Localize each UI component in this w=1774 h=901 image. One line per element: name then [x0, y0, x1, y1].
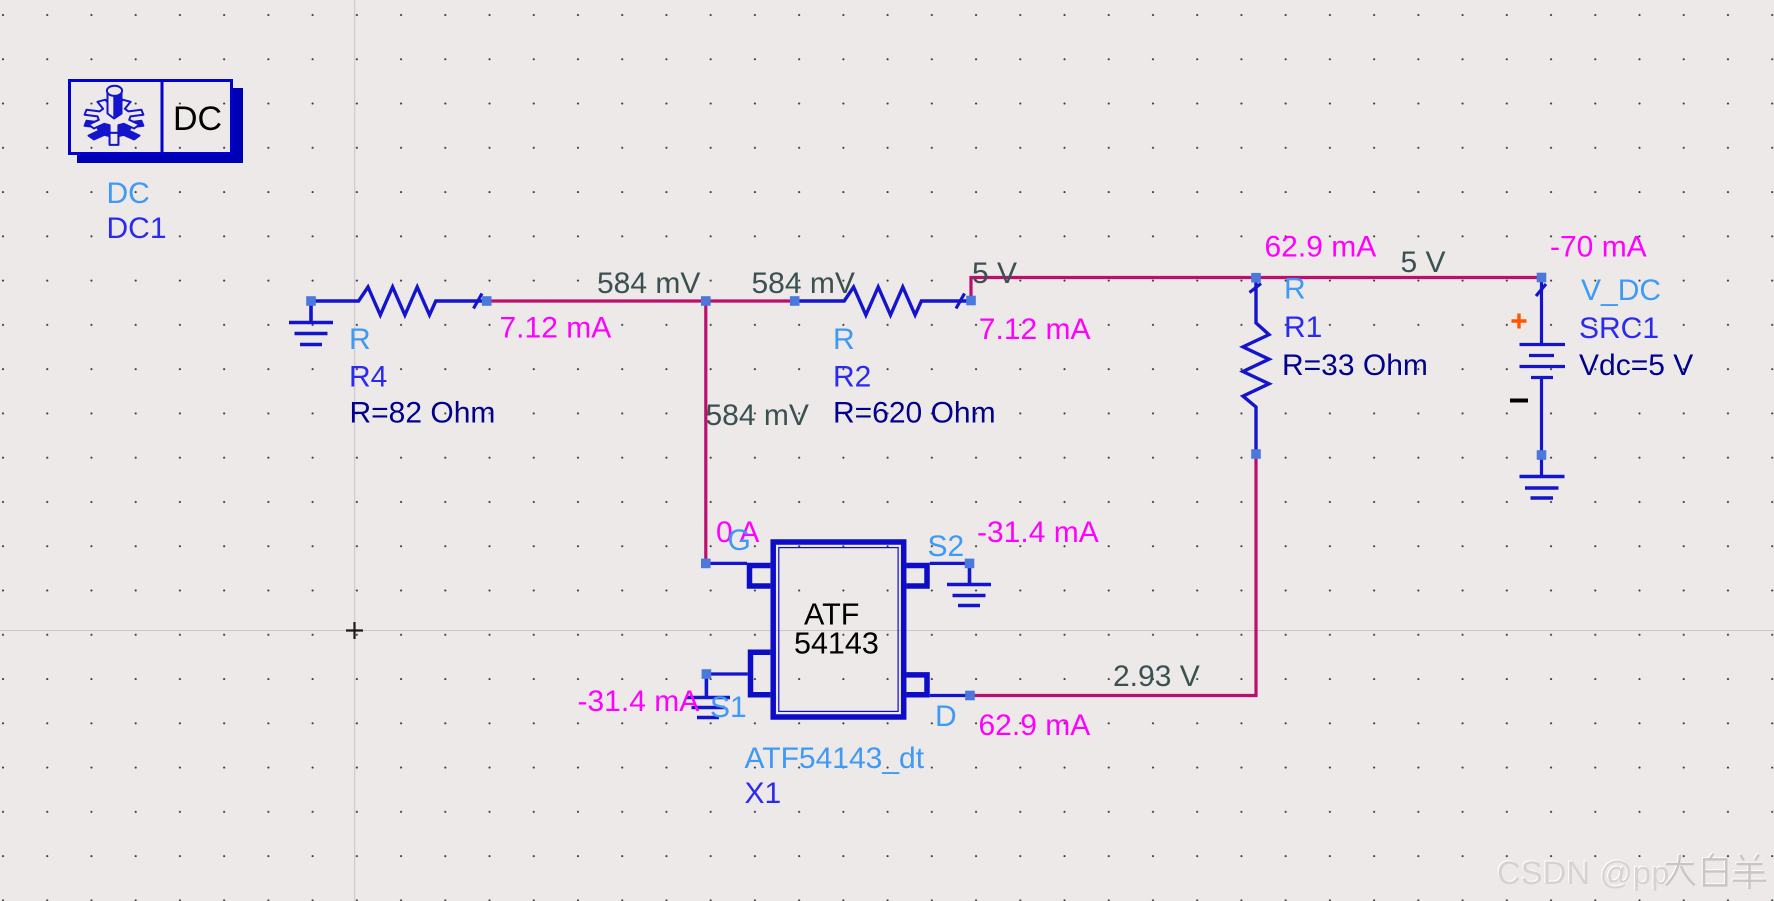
ground GND2 (below SRC1)	[1520, 477, 1565, 499]
svg-text:584 mV: 584 mV	[597, 267, 700, 300]
axis line horizontal	[0, 630, 1774, 632]
node R2 right	[966, 296, 976, 306]
node R4 ground end	[306, 296, 316, 306]
svg-text:D: D	[935, 700, 957, 733]
DC controller gear icon	[85, 86, 144, 145]
node gate	[701, 559, 711, 569]
resistor R1	[1243, 278, 1269, 454]
node junction G net	[701, 296, 711, 306]
ground GND4 (at S1)	[686, 674, 730, 718]
svg-text:DC: DC	[107, 177, 150, 210]
svg-text:ATF54143_dt: ATF54143_dt	[745, 742, 925, 775]
svg-text:-70 mA: -70 mA	[1550, 230, 1647, 263]
wire R4 to junction to R2	[489, 299, 796, 302]
wire R2 node up and top bus to V_DC	[971, 278, 1542, 302]
pin S2 notch	[907, 566, 928, 587]
current arrow tick SRC1	[1536, 284, 1546, 296]
node R2 left	[790, 296, 800, 306]
svg-text:R: R	[349, 323, 371, 356]
DC controller U-DC1 shadow	[77, 88, 243, 163]
node R4 right	[482, 296, 492, 306]
svg-text:R1: R1	[1284, 311, 1322, 344]
minus sign SRC1	[1510, 399, 1528, 403]
svg-text:7.12 mA: 7.12 mA	[979, 313, 1091, 346]
svg-text:R: R	[833, 323, 855, 356]
wire R1 bottom to drain	[970, 454, 1256, 696]
svg-text:R2: R2	[833, 361, 871, 394]
svg-text:62.9 mA: 62.9 mA	[1265, 230, 1377, 263]
voltage source V_DC SRC1	[1520, 278, 1566, 477]
ground GND3 (at S2)	[947, 563, 991, 605]
current arrow tick R1	[1250, 284, 1262, 293]
svg-text:R=33 Ohm: R=33 Ohm	[1282, 349, 1428, 382]
wire S2 lead	[930, 562, 970, 565]
svg-text:R=620 Ohm: R=620 Ohm	[833, 397, 996, 430]
plus sign SRC1	[1512, 314, 1527, 329]
ground GND1 (at R4)	[289, 303, 333, 345]
pin G notch	[750, 566, 771, 587]
DC controller DC1 box	[70, 81, 232, 154]
svg-text:G: G	[728, 524, 751, 557]
svg-text:R4: R4	[349, 361, 387, 394]
axis line vertical	[354, 0, 356, 901]
svg-text:S2: S2	[928, 530, 965, 563]
svg-text:-31.4 mA: -31.4 mA	[578, 685, 700, 718]
svg-text:5 V: 5 V	[1401, 246, 1446, 279]
pin S1 notch	[751, 652, 771, 695]
svg-text:Vdc=5 V: Vdc=5 V	[1579, 349, 1693, 382]
svg-text:2.93 V: 2.93 V	[1113, 660, 1200, 693]
svg-text:S1: S1	[710, 691, 747, 724]
pin D notch	[907, 675, 928, 695]
wire drain lead	[930, 694, 966, 697]
node R1 top	[1251, 273, 1261, 283]
node SRC1 top	[1537, 273, 1547, 283]
watermark CJK glyphs	[1663, 851, 1770, 890]
watermark CSDN	[1497, 855, 1670, 892]
svg-text:V_DC: V_DC	[1581, 274, 1661, 307]
wire S1 lead	[706, 672, 747, 675]
svg-text:DC: DC	[173, 100, 222, 138]
svg-text:584 mV: 584 mV	[752, 267, 855, 300]
svg-text:R: R	[1284, 273, 1306, 306]
origin cross	[346, 622, 363, 639]
svg-text:X1: X1	[745, 777, 782, 810]
current arrow tick R2	[956, 294, 965, 309]
current arrow tick R4	[474, 294, 483, 309]
node S2	[965, 559, 975, 569]
wire gate lead	[706, 562, 747, 565]
wire junction down to gate node	[704, 301, 707, 563]
node R1 bottom	[1251, 449, 1261, 459]
svg-text:7.12 mA: 7.12 mA	[500, 312, 612, 345]
transistor X1 package body	[773, 542, 904, 717]
svg-text:R=82 Ohm: R=82 Ohm	[350, 397, 496, 430]
svg-text:62.9 mA: 62.9 mA	[979, 709, 1091, 742]
svg-text:584 mV: 584 mV	[706, 399, 809, 432]
svg-text:5 V: 5 V	[972, 257, 1017, 290]
svg-text:DC1: DC1	[107, 212, 167, 245]
resistor R4	[311, 287, 486, 315]
node drain	[965, 691, 975, 701]
svg-text:54143: 54143	[794, 627, 879, 661]
resistor R2	[795, 287, 971, 315]
svg-text:-31.4 mA: -31.4 mA	[977, 516, 1099, 549]
node S1	[702, 669, 712, 679]
node SRC1 bottom	[1537, 450, 1547, 460]
svg-text:SRC1: SRC1	[1579, 312, 1659, 345]
